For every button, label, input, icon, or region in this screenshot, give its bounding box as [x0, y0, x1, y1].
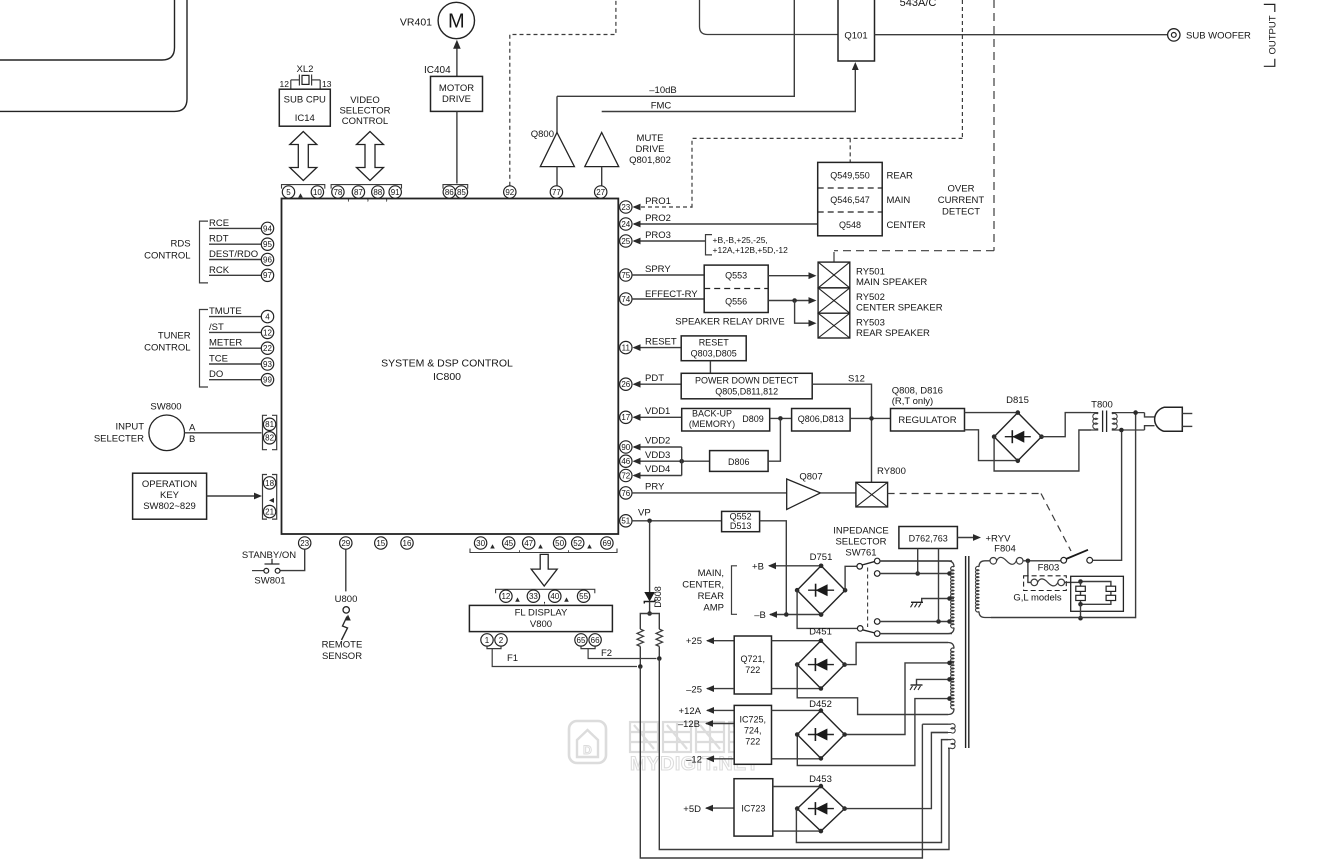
- label Q807: [799, 472, 822, 483]
- svg-text:Q101: Q101: [844, 31, 867, 42]
- svg-text:G,L models: G,L models: [1013, 593, 1061, 604]
- svg-text:D453: D453: [809, 774, 832, 785]
- svg-text:METER: METER: [209, 338, 242, 349]
- svg-text:RDT: RDT: [209, 234, 229, 245]
- svg-text:SELECTOR: SELECTOR: [835, 537, 886, 548]
- wire - RCK to pin 97: [209, 274, 262, 276]
- pin 12 (FL display top): [500, 590, 512, 602]
- svg-text:T800: T800: [1091, 400, 1113, 411]
- zener D808: [644, 592, 655, 604]
- box Q721,722: [734, 636, 771, 694]
- svg-text:91: 91: [391, 188, 400, 197]
- svg-text:F804: F804: [994, 544, 1016, 555]
- svg-text:21: 21: [265, 507, 274, 516]
- svg-text:74: 74: [621, 295, 630, 304]
- svg-text:10: 10: [313, 188, 322, 197]
- switch SW761 contact D: [874, 619, 880, 625]
- remote sensor arrow: [342, 615, 351, 641]
- svg-text:AMP: AMP: [703, 603, 724, 614]
- svg-text:4: 4: [265, 312, 270, 321]
- power down detect text: [695, 376, 799, 397]
- label Q721,722: [741, 654, 766, 675]
- pin 99 (IC800 left): [261, 374, 273, 386]
- ac plug body: [1155, 407, 1183, 431]
- svg-text:D815: D815: [1006, 395, 1029, 406]
- svg-text:B: B: [189, 434, 195, 445]
- label PDT: [645, 373, 664, 384]
- svg-text:CONTROL: CONTROL: [342, 116, 388, 127]
- label OUTPUT: [1268, 15, 1279, 54]
- svg-text:Q549,550: Q549,550: [830, 171, 870, 181]
- svg-text:724,: 724,: [744, 726, 762, 736]
- label +25: [686, 636, 702, 647]
- wire - winding2 tap1 to D452 right: [845, 661, 954, 735]
- svg-text:97: 97: [263, 271, 272, 280]
- transformer small winding 1: [922, 724, 955, 733]
- switch SW761 contact E: [874, 631, 880, 637]
- fuse F804: [990, 557, 1023, 564]
- label +RYV: [986, 534, 1012, 545]
- label REMOTE SENSOR: [322, 640, 363, 663]
- svg-text:–12: –12: [686, 754, 702, 765]
- wire - regulator to D815 top: [965, 412, 1018, 414]
- label RESET (net): [645, 337, 677, 348]
- svg-text:+B,-B,+25,-25,: +B,-B,+25,-25,: [713, 235, 768, 245]
- pin 77 (IC800 top): [550, 186, 562, 198]
- wire - D451 right to winding2 top: [845, 643, 948, 665]
- svg-text:66: 66: [591, 636, 600, 645]
- pin 78 (IC800 top): [332, 186, 344, 198]
- svg-text:TCE: TCE: [209, 354, 228, 365]
- svg-text:23: 23: [621, 203, 630, 212]
- svg-text:OUTPUT: OUTPUT: [1268, 15, 1279, 54]
- marker after pin 52: [587, 544, 592, 548]
- bridge rectifier D815: [992, 410, 1044, 463]
- svg-text:12: 12: [501, 592, 510, 601]
- wire - +B: [768, 562, 821, 569]
- wire - Q721 to D451 top: [772, 640, 821, 642]
- wire - IC725 to D452 bottom: [772, 758, 822, 760]
- sub cpu text: [284, 95, 326, 125]
- bracket - RDS control: [200, 221, 209, 283]
- wire - Q553 to RY501: [768, 272, 816, 279]
- wire - Q101 to sub woofer: [875, 34, 1168, 36]
- switch S801 (right contact): [1087, 557, 1093, 563]
- label D806: [728, 457, 750, 467]
- svg-text:Q808, D816: Q808, D816: [892, 386, 943, 397]
- svg-text:BACK-UP: BACK-UP: [692, 409, 732, 419]
- label B: [189, 434, 195, 445]
- transformer T761 primary winding: [976, 561, 991, 618]
- pin 10 (IC800 top): [311, 186, 323, 198]
- svg-text:DO: DO: [209, 369, 223, 380]
- svg-text:PRY: PRY: [645, 482, 665, 493]
- wire - backup to Q806: [770, 416, 792, 421]
- wire - RDT to pin 95: [209, 243, 262, 245]
- pin 30 (IC800 bottom): [474, 537, 486, 549]
- switch SW761 pole F: [857, 626, 863, 632]
- divider dashed Q553/Q556: [704, 288, 768, 290]
- svg-text:26: 26: [621, 380, 630, 389]
- divider dashed Q549/Q546: [818, 187, 883, 189]
- label +12A,+12B,+5D,-12: [713, 245, 789, 255]
- svg-text:Q800: Q800: [531, 129, 554, 140]
- divider dashed Q546/Q548: [818, 211, 883, 213]
- svg-text:722: 722: [745, 665, 760, 675]
- label DO: [209, 369, 223, 380]
- amplifier Q800 label: [531, 129, 554, 140]
- pin 29 (IC800 bottom): [340, 537, 352, 549]
- motor VR401 label: [400, 17, 432, 29]
- svg-text:Q805,D811,812: Q805,D811,812: [715, 387, 778, 397]
- label -10dB: [649, 85, 676, 96]
- crystal XL2: [291, 75, 320, 86]
- bus arrow - IC800 to FL display: [531, 554, 557, 586]
- pin 13 label (sub cpu): [322, 79, 332, 89]
- wire - D762 lead 2: [938, 549, 940, 622]
- svg-text:/ST: /ST: [209, 322, 224, 333]
- pin 1 (FL display bottom): [481, 634, 493, 646]
- watermark logo: [569, 721, 606, 763]
- amplifier Q801 (mute drive): [585, 133, 619, 167]
- label VDD1: [645, 406, 670, 417]
- mute drive label: [629, 133, 671, 166]
- label EFFECT-RY: [645, 289, 698, 300]
- voltage selector pin 3: [1106, 586, 1116, 591]
- label T800: [1091, 400, 1113, 411]
- label U800: [335, 594, 358, 605]
- pin 24 (IC800 right): [620, 218, 632, 230]
- wire - -12: [706, 755, 734, 762]
- svg-text:RCK: RCK: [209, 265, 230, 276]
- svg-text:78: 78: [333, 188, 342, 197]
- pin 88 (IC800 top): [372, 186, 384, 198]
- pin 82 (IC800 left): [263, 432, 275, 444]
- label +5D: [683, 804, 701, 815]
- label CENTER: [887, 220, 926, 231]
- wire - switch to T800: [1093, 430, 1122, 560]
- wire - resistor2 down to F2 rail: [657, 646, 662, 660]
- transformer core: [966, 556, 969, 748]
- wire - METER to pin 22: [209, 347, 262, 349]
- label RCE: [209, 218, 229, 229]
- resistor R(F2): [656, 629, 662, 646]
- transformer T800 left winding: [1091, 413, 1098, 430]
- wire - split to resistors: [640, 614, 659, 630]
- svg-text:87: 87: [354, 188, 363, 197]
- wire - motor drive to IC800 pins 86/85: [456, 112, 458, 184]
- label PRO2: [645, 213, 671, 224]
- pin 46 (IC800 right): [620, 455, 632, 467]
- svg-text:DETECT: DETECT: [942, 207, 980, 218]
- bridge rectifier D451 label: [809, 627, 832, 638]
- operation key box SW802-829: [133, 473, 207, 519]
- wire - RCE to pin 94: [209, 227, 262, 229]
- wire - F1 net vertical: [640, 667, 922, 859]
- system & dsp control IC800 box: [282, 199, 619, 535]
- svg-text:CONTROL: CONTROL: [144, 251, 190, 262]
- ac plug inlet: [1145, 413, 1155, 430]
- label VDD4: [645, 464, 670, 475]
- pin 23 (IC800 right): [620, 201, 632, 213]
- wire - D815 left to T800 return: [994, 430, 1091, 471]
- svg-text:–12B: –12B: [678, 719, 700, 730]
- watermark MYDIGIT.NET: [630, 753, 759, 775]
- svg-text:IC723: IC723: [741, 804, 765, 814]
- label PRO1: [645, 196, 671, 207]
- label TMUTE: [209, 306, 242, 317]
- pin 18 (IC800 left): [263, 477, 275, 489]
- svg-text:92: 92: [505, 188, 514, 197]
- svg-text:PRO1: PRO1: [645, 196, 671, 207]
- wire - VP to D808: [649, 521, 651, 592]
- relay RY502: [818, 288, 850, 313]
- svg-text:72: 72: [621, 471, 630, 480]
- operation key text: [142, 479, 197, 512]
- wire - cut-off block corner (outer): [0, 0, 187, 111]
- wire - VDD3: [633, 458, 710, 465]
- wire - D762 to +RYV: [957, 534, 981, 541]
- label MAIN CENTER REAR AMP: [682, 568, 724, 614]
- wire - motor drive to motor with arrow: [453, 40, 461, 77]
- svg-text:95: 95: [263, 240, 272, 249]
- wire - EFFECT-RY: [632, 298, 704, 300]
- svg-text:MOTOR: MOTOR: [439, 83, 474, 94]
- bus arrow - video selector to IC800: [357, 132, 384, 181]
- wire - resistor1 down to F1 rail: [638, 646, 643, 668]
- svg-text:VDD2: VDD2: [645, 436, 670, 447]
- label -25: [686, 685, 702, 696]
- svg-text:D513: D513: [730, 521, 752, 531]
- pin 21 (IC800 left): [263, 505, 275, 517]
- label REAR: [887, 171, 914, 182]
- pin 86 (IC800 top): [443, 186, 455, 198]
- wire - contact C to tap: [880, 571, 954, 576]
- svg-text:29: 29: [341, 539, 350, 548]
- svg-text:Q556: Q556: [725, 297, 747, 307]
- svg-text:(MEMORY): (MEMORY): [689, 419, 735, 429]
- FL display text: [515, 608, 568, 631]
- wire - RY800 dashed to power switch: [888, 494, 1071, 552]
- sensor U800: [343, 607, 349, 613]
- pin 12 (IC800 left): [261, 326, 273, 338]
- wire - VP net: [632, 519, 722, 524]
- voltage selector pin 4: [1106, 595, 1116, 600]
- label F803: [1038, 563, 1060, 574]
- wire - VDD4: [633, 472, 682, 479]
- wire - -B: [769, 611, 821, 618]
- pin 26 (IC800 right): [620, 378, 632, 390]
- wire - -10dB net: [556, 96, 558, 132]
- svg-text:SELECTOR: SELECTOR: [339, 106, 390, 117]
- wire - D453 right to small winding 1: [845, 733, 948, 809]
- bracket - pins 78-91: [331, 185, 401, 189]
- label VP: [638, 508, 651, 519]
- wire - Q552 to -B rail: [760, 521, 787, 615]
- wire - winding2 tap3 to D452 left: [797, 696, 954, 765]
- svg-text:25: 25: [621, 237, 630, 246]
- wire - Q721 to D451 bottom: [772, 688, 822, 690]
- svg-text:SW802~829: SW802~829: [143, 501, 196, 512]
- svg-text:SPRY: SPRY: [645, 264, 671, 275]
- svg-text:94: 94: [263, 224, 272, 233]
- pin 12 label (sub cpu): [280, 79, 290, 89]
- voltage selector links: [1078, 579, 1111, 606]
- label F2: [601, 648, 612, 659]
- wire - -12B: [705, 720, 734, 727]
- regulator box: [891, 409, 965, 432]
- wire - +25: [706, 637, 734, 644]
- svg-text:Q807: Q807: [799, 472, 822, 483]
- svg-text:U800: U800: [335, 594, 358, 605]
- label PRO3: [645, 230, 671, 241]
- wire - PDT: [633, 381, 682, 388]
- dashed box G,L models: [1024, 576, 1067, 591]
- svg-text:REMOTE: REMOTE: [322, 640, 363, 651]
- pin 52 (IC800 bottom): [572, 537, 584, 549]
- svg-text:Q806,D813: Q806,D813: [798, 414, 844, 424]
- svg-text:,: ,: [347, 193, 350, 204]
- wire - IC725 to D452 top: [772, 709, 822, 711]
- svg-text:77: 77: [552, 188, 561, 197]
- label RDT: [209, 234, 229, 245]
- label +12A: [679, 706, 702, 717]
- svg-text:REAR: REAR: [887, 171, 914, 182]
- svg-text:543A/C: 543A/C: [900, 0, 937, 9]
- label RY501 MAIN SPEAKER: [856, 267, 927, 289]
- svg-text:99: 99: [263, 376, 272, 385]
- svg-text:VDD3: VDD3: [645, 450, 670, 461]
- svg-text:(R,T only): (R,T only): [892, 396, 934, 407]
- svg-text:CENTER,: CENTER,: [682, 580, 724, 591]
- svg-text:SELECTER: SELECTER: [94, 434, 144, 445]
- voltage selector pin 1: [1076, 586, 1086, 591]
- wire - D451 left to winding2 bottom: [797, 665, 948, 715]
- bridge rectifier D751: [795, 564, 848, 617]
- wire - cut-off block corner (inner): [0, 0, 175, 60]
- svg-text:+5D: +5D: [683, 804, 701, 815]
- box Q552 D513: [722, 511, 760, 531]
- svg-text:MAIN,: MAIN,: [698, 568, 724, 579]
- switch SW761 contact C: [874, 571, 880, 577]
- svg-text:46: 46: [621, 457, 630, 466]
- svg-text:MUTE: MUTE: [637, 133, 664, 144]
- bracket - amp B rails: [732, 566, 738, 615]
- wire - D815 right to T800: [1042, 413, 1092, 437]
- pin 27 (IC800 top): [595, 186, 607, 198]
- svg-text:17: 17: [621, 413, 630, 422]
- wire - TCE to pin 93: [209, 363, 262, 365]
- label REGULATOR: [898, 415, 956, 426]
- svg-text:CENTER SPEAKER: CENTER SPEAKER: [856, 303, 943, 314]
- power down detect box: [681, 373, 812, 399]
- svg-text:18: 18: [265, 479, 274, 488]
- label METER: [209, 338, 242, 349]
- svg-text:40: 40: [550, 592, 559, 601]
- over current detect box Q549/Q546/Q548: [818, 162, 883, 235]
- pin 17 (IC800 right): [620, 411, 632, 423]
- svg-text:D451: D451: [809, 627, 832, 638]
- svg-text:F2: F2: [601, 648, 612, 659]
- svg-text:85: 85: [457, 188, 466, 197]
- wire - Q806 to regulator: [850, 416, 890, 421]
- wire - primary bottom rail: [991, 413, 1136, 619]
- wire - dashed branch to Q549: [849, 138, 851, 162]
- label INPEDANCE SELECTOR SW761: [833, 526, 888, 559]
- label IC725,724,722: [740, 715, 767, 747]
- label D808: [653, 586, 663, 608]
- bridge rectifier D751 label: [810, 552, 833, 563]
- svg-text:S12: S12: [848, 374, 865, 385]
- wire - VDD2-VDD4 tie: [681, 447, 683, 476]
- bracket - pins 18/21: [263, 475, 277, 520]
- svg-text:SYSTEM & DSP CONTROL: SYSTEM & DSP CONTROL: [381, 358, 513, 370]
- svg-text:MAIN: MAIN: [887, 195, 911, 206]
- pin 50 (IC800 bottom): [553, 537, 565, 549]
- pin 90 (IC800 right): [620, 441, 632, 453]
- pin 25 (IC800 right): [620, 235, 632, 247]
- wire - +12A: [706, 707, 734, 714]
- box IC723: [734, 779, 773, 836]
- label Q808, D816 (R,T only): [892, 386, 943, 408]
- svg-text:55: 55: [579, 592, 588, 601]
- reset box text: [691, 338, 737, 359]
- switch SW801: [252, 559, 280, 573]
- bridge rectifier D452: [795, 708, 847, 760]
- pin 66 (FL display bottom): [589, 634, 601, 646]
- label Q549,550: [830, 171, 870, 181]
- svg-text:15: 15: [376, 539, 385, 548]
- svg-text:SW801: SW801: [254, 576, 285, 587]
- wire - F2 net vertical: [659, 659, 949, 850]
- svg-text:+12A: +12A: [679, 706, 702, 717]
- svg-text:88: 88: [373, 188, 382, 197]
- bracket/wire - F2: [581, 646, 657, 658]
- pin 94 (IC800 left): [261, 222, 273, 234]
- ac plug prongs: [1182, 414, 1192, 427]
- pin 81 (IC800 left): [263, 418, 275, 430]
- switch S801 power (left contact): [1061, 557, 1067, 563]
- label SUB WOOFER: [1186, 31, 1251, 42]
- pin 15 (IC800 bottom): [375, 537, 387, 549]
- svg-text:52: 52: [573, 539, 582, 548]
- wire - F804 to power switch: [1023, 559, 1061, 564]
- transformer small winding 2: [942, 739, 956, 749]
- svg-text:Q546,547: Q546,547: [830, 195, 870, 205]
- svg-text:FMC: FMC: [651, 101, 672, 112]
- bracket - output bottom: [1264, 59, 1275, 67]
- label +B,-B,+25,-25: [713, 235, 768, 245]
- bridge rectifier D453: [795, 784, 847, 834]
- svg-text:SW761: SW761: [845, 548, 876, 559]
- svg-text:–B: –B: [754, 610, 766, 621]
- pin 55 (FL display top): [577, 590, 589, 602]
- switch SW761 gang link dashed: [867, 568, 869, 628]
- label /ST: [209, 322, 224, 333]
- svg-text:51: 51: [621, 517, 630, 526]
- svg-text:XL2: XL2: [297, 64, 314, 75]
- svg-text:RESET: RESET: [645, 337, 677, 348]
- svg-text:TUNER: TUNER: [158, 331, 191, 342]
- bridge rectifier D815 label: [1006, 395, 1029, 406]
- svg-text:12: 12: [263, 328, 272, 337]
- svg-text:16: 16: [403, 539, 412, 548]
- svg-text:OPERATION: OPERATION: [142, 479, 197, 490]
- wire - D806 to backup junction: [768, 418, 780, 461]
- pin 91 (IC800 top): [389, 186, 401, 198]
- bracket - FL pins 12-55: [496, 589, 595, 593]
- pin 93 (IC800 left): [261, 358, 273, 370]
